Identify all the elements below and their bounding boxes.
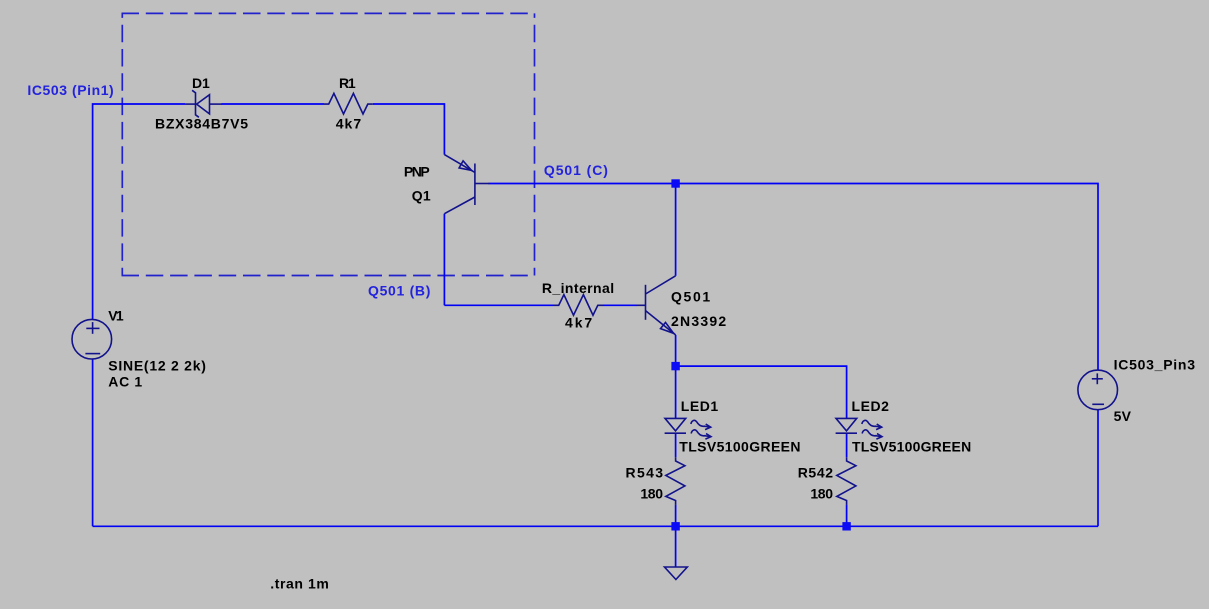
svg-text:5V: 5V	[1114, 408, 1132, 424]
svg-text:Q501 (C): Q501 (C)	[544, 162, 609, 178]
wire branch node down to LED1	[675, 366, 677, 418]
svg-text:Q1: Q1	[412, 187, 432, 203]
svg-text:PNP: PNP	[404, 163, 431, 179]
wire Q1 collector down to node B row	[443, 214, 445, 306]
svg-text:R1: R1	[339, 75, 357, 91]
LED LED1 (TLSV5100GREEN)	[665, 418, 711, 439]
svg-text:SINE(12 2 2k): SINE(12 2 2k)	[108, 357, 206, 373]
voltage source V1 (SINE)	[72, 319, 112, 359]
wire R542 to bottom rail	[846, 505, 848, 527]
svg-text:180: 180	[810, 486, 833, 502]
wire bottom rail	[93, 525, 1098, 527]
svg-text:TLSV5100GREEN: TLSV5100GREEN	[679, 438, 801, 454]
wire LED1 to R543	[675, 433, 677, 457]
svg-text:D1: D1	[192, 75, 211, 91]
node junction at bottom rail / R542	[842, 522, 850, 530]
node junction at Q501 collector / net C	[671, 179, 679, 187]
svg-text:Q501 (B): Q501 (B)	[368, 282, 431, 298]
wire R_internal to Q501 base	[603, 304, 637, 306]
wire D1 to R1	[222, 103, 325, 105]
wire right rail below IC503_Pin3	[1097, 410, 1099, 526]
svg-text:2N3392: 2N3392	[671, 313, 727, 329]
svg-text:LED1: LED1	[681, 398, 719, 414]
wire left rail top (IC503 Pin1 to V1)	[93, 104, 185, 320]
svg-text:AC 1: AC 1	[108, 374, 143, 390]
zener diode D1 (BZX384B7V5)	[185, 90, 222, 117]
svg-text:4k7: 4k7	[336, 116, 362, 132]
svg-text:IC503_Pin3: IC503_Pin3	[1114, 357, 1196, 373]
svg-text:V1: V1	[108, 308, 124, 324]
wire Q501 emitter down to branch node	[675, 335, 677, 366]
svg-text:Q501: Q501	[671, 289, 711, 305]
dashed box (internal circuit boundary)	[122, 13, 535, 275]
svg-text:IC503 (Pin1): IC503 (Pin1)	[27, 82, 114, 98]
svg-text:BZX384B7V5: BZX384B7V5	[155, 116, 249, 132]
transistor Q1 (PNP)	[444, 155, 489, 214]
resistor R542 (180)	[837, 457, 856, 505]
wire Q501 collector up to node C	[675, 184, 677, 276]
wire node B to R_internal	[444, 304, 554, 306]
wire LED2 to R542	[846, 433, 848, 457]
svg-text:R543: R543	[626, 464, 664, 480]
wire Q1 base to right rail (net Q501 (C))	[489, 184, 1099, 370]
voltage source IC503_Pin3 (5V)	[1078, 370, 1118, 410]
svg-text:R_internal: R_internal	[542, 280, 615, 296]
wire R543 to bottom rail	[675, 505, 677, 527]
svg-text:R542: R542	[798, 464, 834, 480]
resistor R_internal (4k7)	[554, 295, 603, 316]
wire branch node to LED2 column	[676, 366, 847, 418]
transistor Q501 (NPN 2N3392)	[637, 276, 676, 335]
svg-text:4k7: 4k7	[565, 315, 593, 331]
node junction at bottom rail / ground	[671, 522, 679, 530]
svg-text:.tran 1m: .tran 1m	[270, 575, 329, 591]
resistor R543 (180)	[666, 457, 685, 505]
wire left rail below V1	[92, 359, 94, 526]
LED LED2 (TLSV5100GREEN)	[836, 418, 882, 439]
resistor R1 (4k7)	[324, 93, 373, 114]
svg-text:180: 180	[640, 486, 663, 502]
node junction at emitter branch	[671, 362, 679, 370]
svg-text:TLSV5100GREEN: TLSV5100GREEN	[852, 438, 972, 454]
wire R1 to Q1 emitter	[373, 104, 444, 155]
ground	[665, 567, 688, 580]
svg-text:LED2: LED2	[852, 398, 890, 414]
wire bottom rail to ground	[675, 526, 677, 567]
